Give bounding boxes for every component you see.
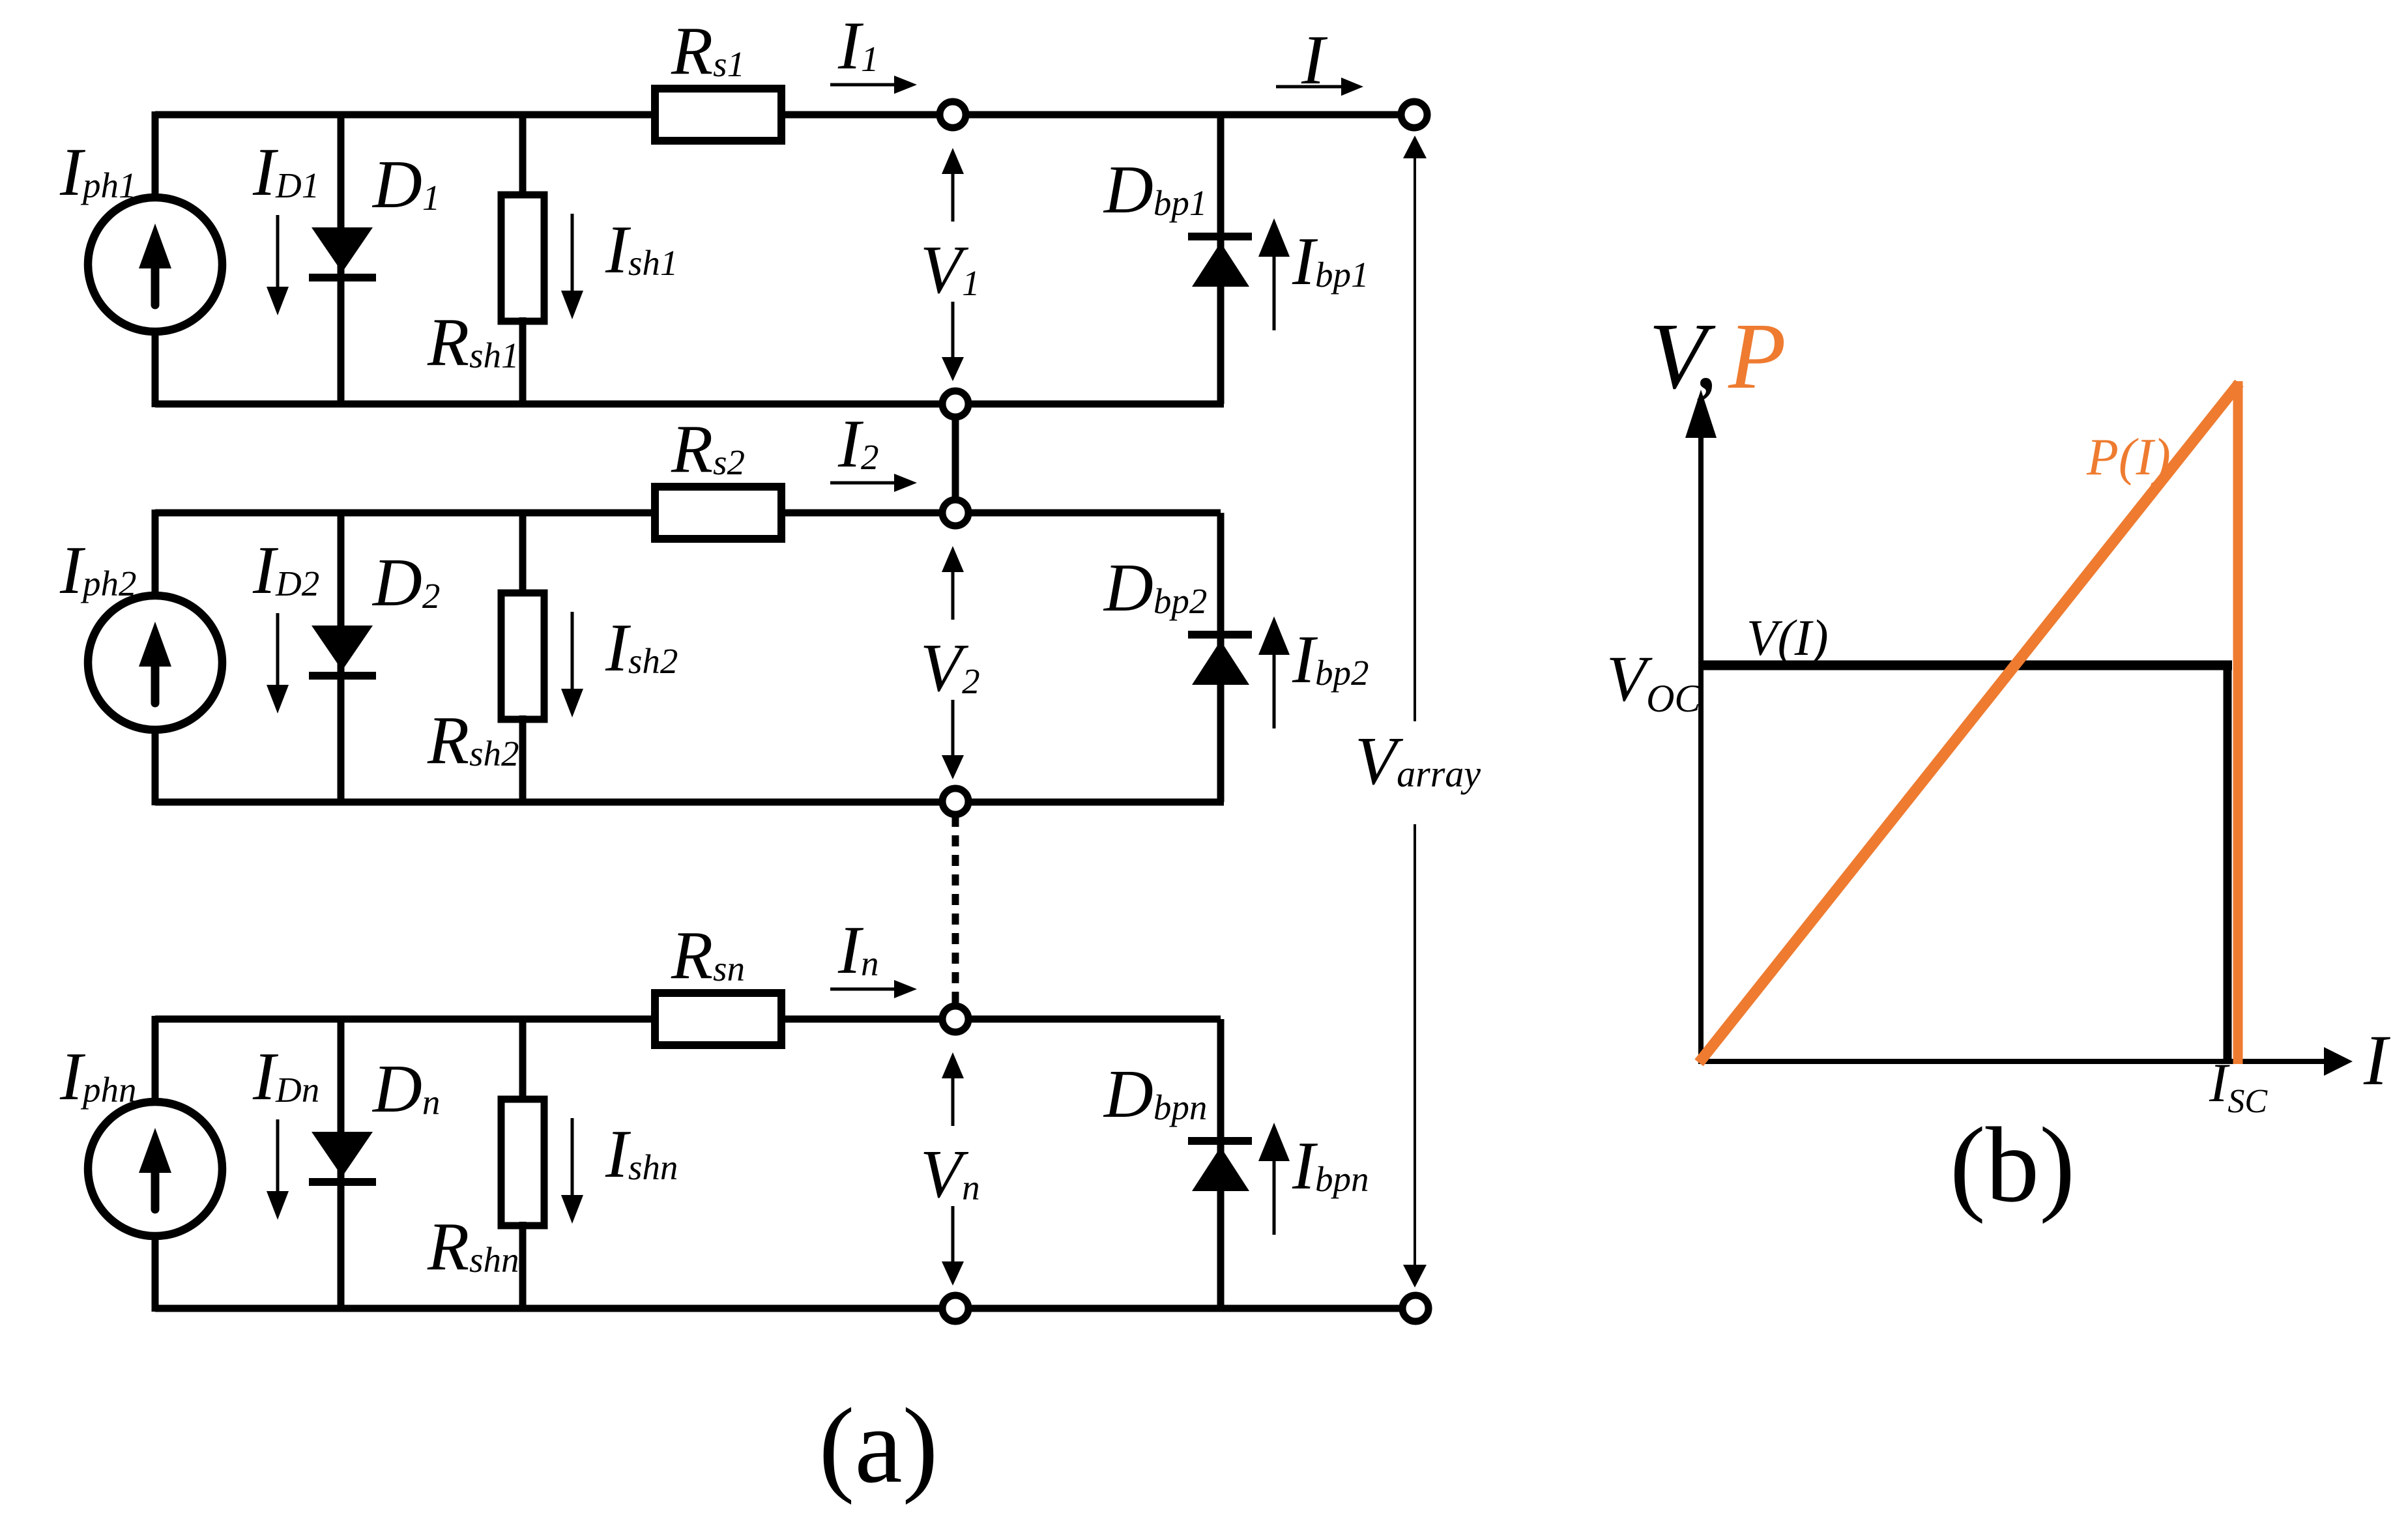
graph: curve V(I) drop at Isc: [2224, 665, 2232, 1064]
svg-text:(b): (b): [1950, 1105, 2075, 1224]
svg-text:(a): (a): [819, 1386, 938, 1505]
voltage arrow V2 (up): [951, 571, 955, 620]
current arrow ID2: [276, 613, 280, 686]
svg-text:I: I: [1301, 22, 1328, 99]
resistor Rsh2: [501, 593, 544, 719]
graph: I axis: [1698, 1059, 2328, 1064]
wire: module n left rail: [152, 1016, 159, 1312]
current arrow Ish2: [571, 612, 574, 690]
graph: V axis (V, P): [1698, 417, 1704, 1064]
svg-text:V(I): V(I): [1747, 609, 1829, 666]
bypass diode Dbpn: [1188, 1137, 1252, 1145]
resistor Rsn: [655, 993, 781, 1045]
wire: module 1 bottom rail: [155, 401, 1224, 408]
wire: diode D2 branch: [338, 513, 345, 802]
wire: module 2 left rail: [152, 510, 159, 805]
current arrow Ishn: [571, 1118, 574, 1196]
graph: curve P(I) ramp: [1699, 383, 2239, 1063]
wire: module 1 top rail: [155, 111, 655, 119]
wire: shunt branch top: [519, 1019, 527, 1103]
wire: bypass diode branch: [1217, 513, 1225, 802]
wire: diode D1 branch: [338, 115, 345, 404]
current source Iphn: [88, 1102, 222, 1236]
node: module 2 bottom junction: [942, 788, 968, 814]
wire: shunt branch bottom: [519, 715, 527, 802]
current source Iph1: [88, 197, 222, 332]
wire: module 2 bottom rail: [155, 799, 1224, 806]
node: array negative terminal: [1402, 1295, 1429, 1321]
wire: shunt branch bottom: [519, 1222, 527, 1308]
wire: bypass diode branch: [1217, 115, 1225, 404]
svg-text:V,P: V,P: [1649, 304, 1786, 409]
current arrow Ibp2: [1273, 654, 1276, 728]
current source Iph2: [88, 596, 222, 730]
current arrow In: [830, 988, 895, 991]
current arrow I1: [830, 83, 895, 87]
graph: curve V(I) horizontal at Voc: [1701, 661, 2232, 670]
resistor Rshn: [501, 1099, 544, 1226]
graph: curve P(I) drop at Isc: [2233, 381, 2243, 1064]
bypass diode Dbp2: [1188, 631, 1252, 639]
diode Dn: [312, 1132, 373, 1177]
current arrow Ibp1: [1273, 255, 1276, 330]
bypass diode Dbp1: [1188, 233, 1252, 240]
node: array positive terminal: [1401, 102, 1427, 128]
voltage arrow V2 (down): [951, 700, 955, 756]
voltage arrow Varray (upper segment): [1414, 157, 1416, 721]
resistor Rs1: [655, 89, 781, 141]
node: module 1 / module 2 junction: [942, 391, 968, 417]
voltage arrow Vn (up): [951, 1077, 955, 1126]
diode D2: [312, 626, 373, 670]
current arrow IDn: [276, 1119, 280, 1192]
wire: shunt branch bottom: [519, 317, 527, 404]
current arrow Ibpn: [1273, 1160, 1276, 1235]
node: module n bottom junction: [942, 1295, 968, 1321]
current arrow ID1: [276, 215, 280, 288]
svg-text:P(I): P(I): [2086, 429, 2171, 486]
voltage arrow Varray (lower segment): [1414, 824, 1416, 1266]
voltage arrow V1 (up): [951, 173, 955, 222]
diode D1: [312, 227, 373, 272]
wire: shunt branch top: [519, 115, 527, 199]
voltage arrow V1 (down): [951, 302, 955, 358]
current arrow I (array output): [1276, 85, 1342, 89]
node: module 1 output (V1+): [940, 102, 966, 128]
resistor Rs2: [655, 487, 781, 539]
resistor Rsh1: [501, 195, 544, 321]
voltage arrow Vn (down): [951, 1206, 955, 1263]
wire: dashed continuation between module 2 and module n: [952, 816, 959, 1009]
wire: module n top rail: [155, 1016, 655, 1023]
svg-text:I: I: [2363, 1020, 2390, 1100]
wire: diode Dn branch: [338, 1019, 345, 1308]
wire: bypass diode branch: [1217, 1019, 1225, 1308]
node: module n output (Vn+): [942, 1006, 968, 1032]
wire: shunt branch top: [519, 513, 527, 597]
wire: module n bottom rail: [155, 1305, 1419, 1312]
wire: node V1- to node V2+: [952, 404, 959, 513]
node: module 2 output (V2+): [942, 500, 968, 526]
current arrow I2: [830, 482, 895, 485]
current arrow Ish1: [571, 214, 574, 292]
wire: module 2 top rail: [155, 510, 655, 517]
wire: module 1 left rail: [152, 111, 159, 407]
